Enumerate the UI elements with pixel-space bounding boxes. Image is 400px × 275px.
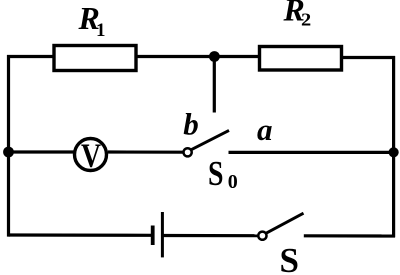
wire: right rail bbox=[392, 56, 395, 237]
wire: top-left segment to R1 bbox=[7, 55, 53, 58]
node junction left bbox=[3, 147, 14, 158]
svg-text:S: S bbox=[208, 154, 224, 193]
node junction top bbox=[209, 51, 220, 62]
svg-text:2: 2 bbox=[301, 10, 311, 30]
svg-text:a: a bbox=[257, 112, 273, 147]
svg-text:b: b bbox=[183, 107, 199, 142]
wire: middle left segment to voltmeter bbox=[7, 150, 74, 153]
wire: R2 to top-right corner bbox=[341, 56, 395, 59]
wire: R1 to R2 across top node bbox=[136, 55, 259, 58]
resistor R2 bbox=[260, 47, 342, 71]
wire: voltmeter to switch S0 bbox=[108, 150, 184, 153]
switch S blade bbox=[266, 213, 304, 233]
wire: switch S to bottom-right corner bbox=[304, 234, 395, 237]
wire: battery to switch S bbox=[164, 234, 259, 237]
svg-text:V: V bbox=[81, 138, 101, 175]
battery: short thick plate bbox=[151, 226, 155, 246]
wire: left rail bbox=[7, 55, 10, 237]
battery: long thin plate bbox=[161, 212, 164, 257]
switch S0 blade bbox=[191, 130, 229, 149]
wire: stub from top node to contact b bbox=[213, 57, 216, 113]
wire: contact a to right rail bbox=[229, 151, 396, 154]
voltmeter U1 circle bbox=[75, 139, 107, 171]
svg-text:S: S bbox=[280, 241, 299, 275]
wire: bottom rail left of battery bbox=[9, 233, 152, 237]
switch S0 pivot circle bbox=[184, 148, 192, 156]
svg-text:0: 0 bbox=[228, 171, 238, 193]
node junction right bbox=[389, 147, 399, 157]
svg-text:1: 1 bbox=[96, 20, 106, 41]
switch S pivot circle bbox=[258, 232, 266, 240]
resistor R1 bbox=[54, 46, 136, 71]
